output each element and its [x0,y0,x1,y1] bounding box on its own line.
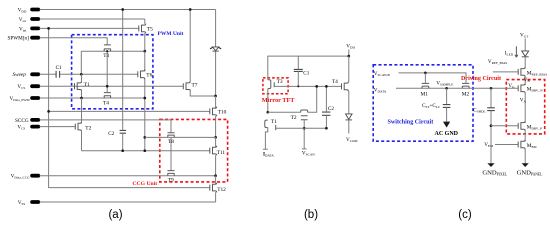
wire VDataCCG row to right column [40,175,216,177]
svg-text:T3: T3 [103,53,109,59]
wire T2 leads [81,98,83,151]
node dot T10 column T8row [214,136,217,139]
svg-text:C1: C1 [56,65,62,71]
svg-text:T5: T5 [147,27,153,33]
transistor T8 [168,133,175,146]
node dot MdrvP gate row [490,124,493,127]
wire T2 gate down to VSCAN [302,120,307,149]
transistor T12 [210,183,226,193]
transistor Mem [518,140,536,150]
svg-text:T6: T6 [146,73,152,79]
wire VGT down to LED [524,39,526,51]
wire MrefBias gate lead [493,71,518,73]
wire T1 source to IDATA [263,128,268,150]
wire Vini row [40,27,139,29]
wire LED to VCOM [348,120,350,134]
wire C2 top column from VDD [122,10,124,131]
wire VSCANB row [399,73,467,84]
wire Cshdl bottom column to GND [490,111,492,164]
svg-text:CCG Unit: CCG Unit [132,181,157,187]
node dot T6 column VDataPWM [143,97,146,100]
wire T11 gate row y150.7 [82,150,210,152]
terminal Vini [19,26,40,32]
node dot T10 gate row start [47,110,50,113]
transistor MdrvP [518,121,542,131]
terminal VSS [18,200,40,206]
node dot T1 source [80,97,83,100]
transistor M2 [462,83,470,97]
wire MrefBias source to MdrvN [524,77,526,86]
node dot T6 column T8 row [143,136,146,139]
transistor T6 [138,70,153,80]
svg-text:Driving Circuit: Driving Circuit [461,76,501,82]
wire SPWM row to T3 gate [40,38,108,45]
wire Sweep row left of C1 [40,73,56,75]
wire T1 drain riser [81,74,83,81]
node dot Cshdl top [490,87,493,90]
wire T7 drain column to VDD [189,10,191,82]
terminal SCCG [15,118,40,124]
wire node y51 row [81,51,145,74]
transistor T4 [103,93,111,107]
wire M1 gate drop [424,73,426,84]
wire LED column to T10 [215,96,217,109]
node dot T6 column T11 row [143,149,146,152]
ILED current arrow [515,46,518,57]
node dot Vini branch [47,27,50,30]
CCG Unit box [132,119,227,187]
terminal SPWM[n] [7,36,40,42]
wire VDataPWM row [40,97,145,99]
wire T4 source to LED b [348,91,350,114]
node dot VSAMPLE [445,87,448,90]
wire Mem gate lead [495,144,518,146]
terminal Verr [19,17,40,23]
transistor T7 [183,81,197,91]
node dot T2 row left [266,111,269,114]
svg-text:C2: C2 [108,131,114,137]
wire T3 gate row to T4 gate [274,85,341,87]
wire Sweep row right of C1 to T6 gate [60,73,138,75]
LED D1 [210,47,221,51]
wire VCS2 row to T2 gate [40,126,76,128]
wire left column T3 to T2 row [267,89,269,113]
wire T4 gate lead [106,86,108,92]
svg-text:T4: T4 [103,101,109,107]
svg-text:T3: T3 [277,79,283,85]
transistor T4 b [332,79,349,91]
wire T5 drain riser to Verr [144,19,146,24]
wire T12 source to VSS [215,192,217,202]
wire MdrvP source to Mem [524,131,526,142]
node dot y51 T5 column [143,50,146,53]
wire T5 source to y51 node [144,33,146,51]
svg-text:(c): (c) [458,209,472,221]
transistor T10 [210,107,227,117]
wire LED to MrefBias [524,57,526,69]
node dot C1 bottom [297,85,299,87]
svg-text:Sweep: Sweep [13,72,27,78]
svg-text:T2: T2 [85,126,91,132]
Driving Circuit box [461,76,545,134]
capacitor C2 b [322,106,334,115]
node dot T3 column top [106,50,108,52]
GND arrow left [487,163,494,167]
wire Cst bottom to AC GND arrow [446,107,448,121]
transistor T9 [168,171,175,184]
capacitor C1 [56,65,62,78]
wire Mem source to GND [524,149,526,164]
node dot colA top [315,85,318,88]
transistor T3 b [268,79,283,88]
node dot T7 VDD [189,8,192,11]
LED D b [346,114,353,120]
wire Cst lead [446,88,448,104]
node dot C2 bottom [121,149,124,152]
svg-text:M1: M1 [421,92,429,98]
terminal VCS1 [17,84,40,90]
svg-text:SPWM[n]: SPWM[n] [7,36,29,42]
node dot VDD b [347,55,350,58]
node dot M1 gate [424,72,427,75]
LED column from VDD [215,10,217,97]
wire T3 center column down to VCS row [106,51,108,86]
terminal Sweep [13,72,41,78]
svg-text:Switching Circuit: Switching Circuit [388,120,434,126]
svg-text:AC GND: AC GND [435,131,459,137]
terminal VCS2 [17,125,40,131]
svg-text:T1: T1 [271,119,277,125]
wire T8 to T9 column [170,137,172,170]
svg-text:M2: M2 [462,92,470,98]
capacitor C2 [108,130,126,136]
node dot LED bottom T7 [214,95,217,98]
svg-text:PWM Unit: PWM Unit [158,31,184,37]
wire VDD top rail b [268,50,349,80]
wire T12 drain column [215,176,217,184]
svg-text:C1: C1 [303,71,309,77]
transistor T3 [103,45,111,59]
wire Cshdl top lead [490,88,492,108]
svg-text:C2: C2 [328,106,334,112]
node dot VDataCCG right column [214,174,217,177]
svg-text:T4: T4 [332,79,338,85]
wire C2 bottom lead [122,133,124,151]
wire MdrvP gate row [491,125,518,127]
transistor T2 [75,122,91,132]
node dot C2 bottom b [325,127,328,130]
terminal VDataPWM [10,96,41,102]
wire T4 drain riser [348,56,350,82]
wire T1 gate row [276,127,327,129]
wire C1 leads [297,56,299,86]
transistor T5 [139,24,153,34]
svg-text:SCCG: SCCG [15,118,29,124]
transistor T1 [75,81,90,91]
node Vini branch column x48.6 [49,28,210,187]
wire VDATA row [396,87,518,89]
svg-text:T11: T11 [217,150,226,156]
wire T11 column top [215,137,217,147]
wire T2 drain column [81,98,83,123]
node dot sweep T1 drain [80,73,83,76]
svg-text:T2: T2 [291,115,297,121]
wire VCS row to T7 gate [40,85,184,87]
GND arrow right [522,163,529,167]
wire T11 source to VDataCCG row [215,155,217,176]
wire T6 source column down [144,79,146,151]
LED D c [522,51,529,57]
node dot C2 top b [325,85,328,88]
svg-text:T12: T12 [217,187,226,193]
node dot T4 gate / VCS row [106,85,109,88]
transistor MdrvN [518,84,543,94]
svg-text:T7: T7 [192,82,198,88]
svg-text:T9: T9 [168,178,174,184]
node dot T2 gate T1 row [303,127,306,130]
PWM Unit box [72,31,184,109]
transistor MrefBias [518,67,547,77]
wire Verr row [40,18,145,20]
terminal VDD [18,7,41,13]
transistor T11 [210,146,226,156]
wire T2 row [268,86,317,112]
transistor T2 b [291,110,308,121]
node dot C2 column at VDD [121,8,124,11]
terminal VDataCCG [11,174,41,180]
svg-text:VSCAN,B: VSCAN,B [374,71,391,78]
capacitor Cst+Clc [422,103,450,109]
svg-text:T1: T1 [84,82,90,88]
svg-text:T10: T10 [218,110,227,116]
transistor M1 [421,83,430,97]
wire T1 source down to VDataPWM row [81,91,83,98]
wire C2 leads b [325,86,327,128]
wire T10 gate row y111.4 [49,110,210,112]
wire T8 row [145,136,216,138]
capacitor Cshdl [473,108,495,114]
wire T10 source column [215,116,217,137]
wire SCCG row to T8 gate column [40,120,171,133]
capacitor C1 b [294,69,310,76]
wire VSS row [40,201,216,203]
wire MdrvN source to MdrvP [524,93,526,123]
transistor T1 b [265,119,277,130]
wire VDD row [40,9,216,11]
svg-text:(a): (a) [108,209,122,221]
wire T7 source jog to LED column [190,91,215,96]
AC GND arrow [443,122,450,128]
svg-text:(b): (b) [304,209,318,221]
Mirror TFT box [262,78,296,104]
wire T5T6 column [144,51,146,71]
svg-text:Mirror TFT: Mirror TFT [262,97,296,104]
Switching Circuit box [373,65,473,141]
